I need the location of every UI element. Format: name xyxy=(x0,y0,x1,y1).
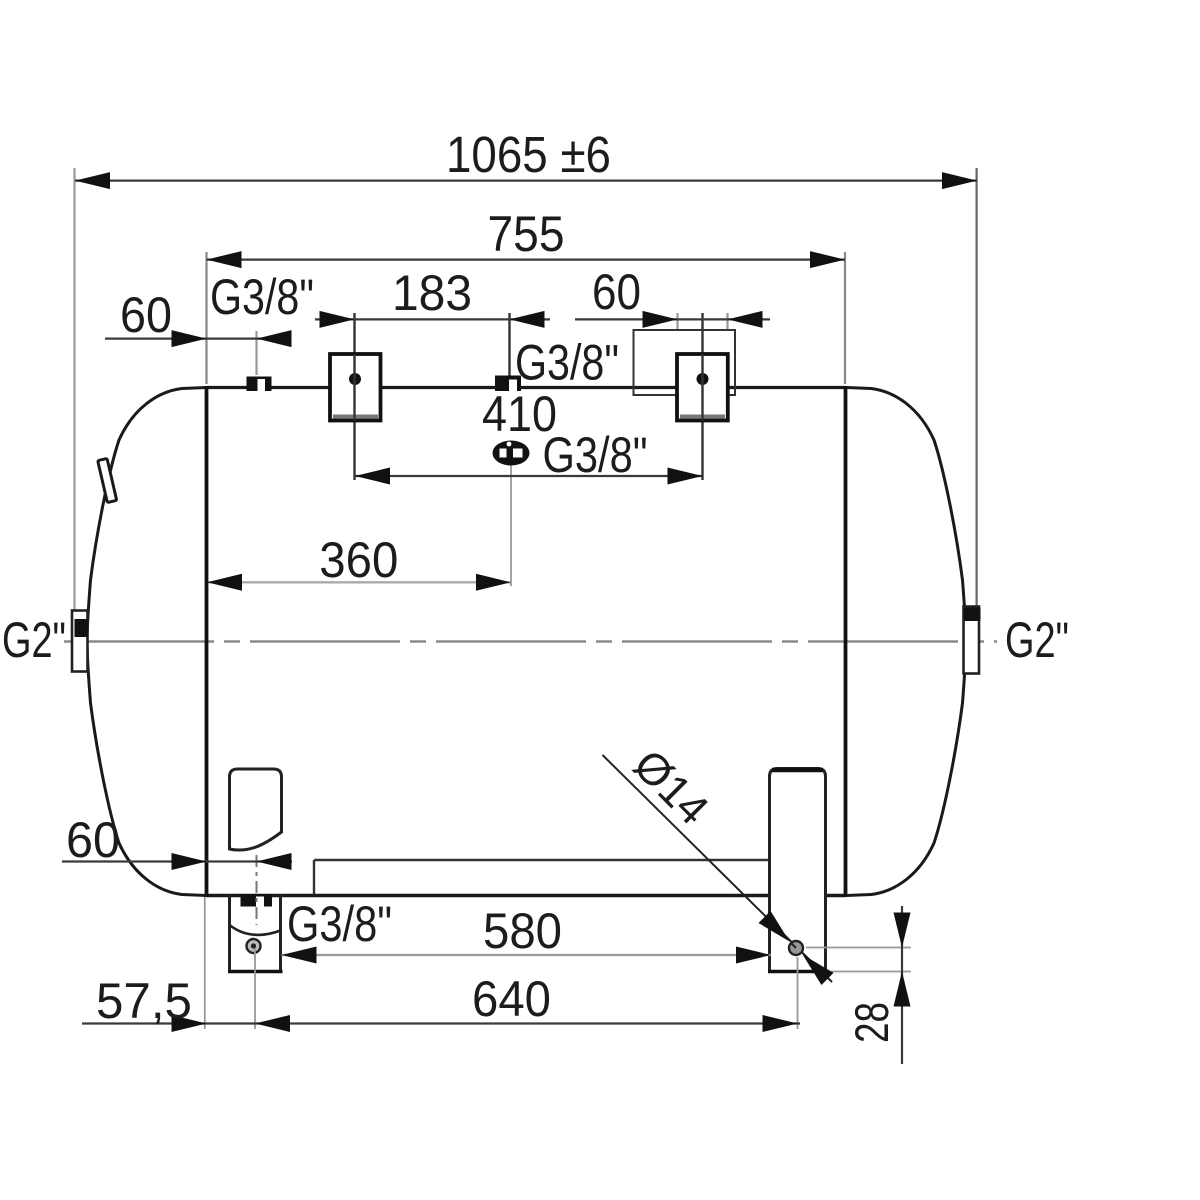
arrowhead 1065 left xyxy=(75,172,110,189)
dimension line 28 vertical xyxy=(901,906,903,1064)
fitting boss F3 xyxy=(677,354,728,421)
svg-text:G2": G2" xyxy=(1005,612,1069,668)
arrowhead 360 left xyxy=(207,574,242,591)
arrowhead 60 right a xyxy=(643,311,678,328)
centerline fitting1 vertical xyxy=(353,313,355,480)
drain fitting G3/8 xyxy=(241,894,273,907)
dimension line 60 left xyxy=(105,338,291,340)
arrowhead 28 bottom xyxy=(894,972,911,1007)
centerline fitting3 vertical xyxy=(701,313,703,480)
centerline tank axis xyxy=(64,640,997,642)
arrowhead 755 right xyxy=(810,251,845,268)
small port fitting A xyxy=(247,377,272,392)
arrowhead 60 bottom a xyxy=(172,853,207,870)
extension line 755 left xyxy=(205,252,207,384)
arrowhead 28 top xyxy=(894,913,911,948)
tank bottom line xyxy=(207,894,846,897)
extension line port G3/8 no.1 xyxy=(255,331,257,375)
dimension line 640 + 57.5 xyxy=(82,1022,800,1024)
leader diameter 14 xyxy=(603,755,833,982)
dimension line 60 right xyxy=(575,318,770,320)
svg-text:G3/8": G3/8" xyxy=(210,269,314,325)
extension line port G3/8 no.2 xyxy=(508,313,510,376)
extension line 60 right b xyxy=(726,313,728,330)
dimension line 755 xyxy=(207,259,846,261)
svg-text:755: 755 xyxy=(488,206,565,262)
left leg lower xyxy=(228,894,231,972)
drain centerline xyxy=(256,855,258,925)
arrowhead 60 left a xyxy=(172,330,207,347)
arrowhead 755 left xyxy=(207,251,242,268)
arrowhead 183 right xyxy=(510,311,545,328)
dimension line 60 bottom xyxy=(62,860,292,862)
extension line 1065 right xyxy=(975,168,977,606)
extension line 28 bottom xyxy=(830,971,911,973)
svg-text:G2": G2" xyxy=(2,612,66,668)
svg-text:183: 183 xyxy=(392,265,472,321)
arrowhead 60 right b xyxy=(728,311,763,328)
svg-text:G3/8": G3/8" xyxy=(543,427,648,483)
fitting boss F1 xyxy=(330,354,381,421)
arrowhead leader 14 lower xyxy=(803,955,834,986)
right dished head xyxy=(847,388,967,896)
arrowhead 580 right xyxy=(736,947,771,964)
svg-text:60: 60 xyxy=(66,812,120,868)
extension line 1065 left xyxy=(73,168,75,610)
dimension line 183 xyxy=(315,318,550,320)
fitting flange F3 outer xyxy=(634,330,736,395)
extension line hole right xyxy=(797,957,799,1029)
left leg upper bracket xyxy=(230,769,282,850)
weld seam left xyxy=(205,386,209,897)
left dished head xyxy=(87,388,207,896)
dimension line 410 xyxy=(355,475,703,477)
weld seam right xyxy=(844,386,848,897)
arrowhead 57.5 left xyxy=(172,1015,207,1032)
right leg xyxy=(770,769,826,972)
svg-text:1065 ±6: 1065 ±6 xyxy=(446,126,611,183)
dimension line 1065 xyxy=(75,180,977,182)
svg-text:G3/8": G3/8" xyxy=(287,896,392,952)
dimension line 360 xyxy=(207,581,511,583)
small port fitting B xyxy=(495,376,521,392)
svg-text:57,5: 57,5 xyxy=(96,973,192,1029)
port G2 left xyxy=(72,611,88,672)
dimension line 580 xyxy=(282,954,772,956)
arrowhead 1065 right xyxy=(942,172,977,189)
centerline ellipse fitting vertical xyxy=(510,465,512,586)
ellipse fitting G3/8 xyxy=(493,441,530,466)
extension line 28 top xyxy=(806,947,911,949)
svg-text:G3/8": G3/8" xyxy=(515,335,619,391)
port G2 right xyxy=(964,607,980,674)
arrowhead 640 right xyxy=(763,1015,798,1032)
mounting plate web left jog xyxy=(313,860,315,894)
arrowhead 60 left b xyxy=(257,330,292,347)
arrowhead 410 right xyxy=(668,468,703,485)
arrowhead 183 left xyxy=(320,311,355,328)
arrowhead 580 left xyxy=(282,947,317,964)
arrowhead 60 bottom b xyxy=(257,853,292,870)
arrowhead 410 left xyxy=(355,468,390,485)
svg-text:28: 28 xyxy=(845,1002,898,1043)
sight boss on left head xyxy=(98,458,117,502)
extension line 57.5 left xyxy=(204,897,206,1029)
extension line 755 right xyxy=(844,252,846,384)
foot hole left xyxy=(247,939,261,953)
arrowhead 360 right xyxy=(476,574,511,591)
foot hole right xyxy=(789,941,803,955)
svg-text:60: 60 xyxy=(120,287,172,343)
mounting plate web top edge xyxy=(314,859,770,861)
arrowhead leader 14 upper xyxy=(759,911,790,942)
svg-text:60: 60 xyxy=(592,264,641,320)
arrowhead 640 left xyxy=(255,1015,290,1032)
svg-text:640: 640 xyxy=(472,971,551,1027)
extension line hole left xyxy=(254,948,256,1029)
svg-text:580: 580 xyxy=(483,903,562,959)
svg-text:360: 360 xyxy=(319,532,398,588)
tank top line xyxy=(207,386,846,389)
extension line 60 right a xyxy=(676,313,678,331)
